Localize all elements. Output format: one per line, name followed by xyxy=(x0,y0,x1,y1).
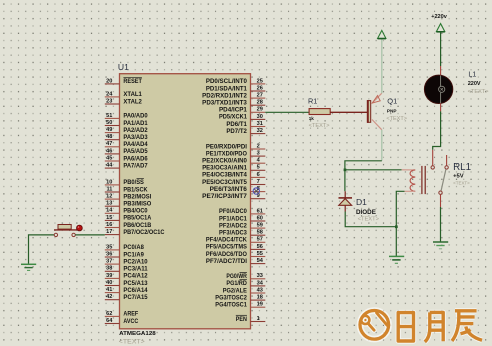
svg-text:PA6/AD6: PA6/AD6 xyxy=(123,156,148,162)
diode D1 label xyxy=(356,197,367,207)
svg-text:13: 13 xyxy=(106,201,112,207)
svg-text:ATMEGA128: ATMEGA128 xyxy=(119,331,156,337)
U1 pin 44 PA7/AD7 (left) xyxy=(105,163,148,170)
U1 pin 49 PA2/AD2 (left) xyxy=(105,127,148,134)
resistor R1 body xyxy=(309,109,330,115)
relay RL1 label xyxy=(453,162,471,173)
U1 pin 10 PB0/SS (left) xyxy=(105,179,144,187)
lamp L1 value 220V xyxy=(468,81,481,87)
U1 pin 35 PC0/A8 (left) xyxy=(105,244,145,251)
svg-text:PD7/T2: PD7/T2 xyxy=(226,129,247,135)
U1 pin 1 PEN (right) xyxy=(236,315,266,323)
U1 pin 30 PD5/XCK1 (right) xyxy=(219,114,265,121)
svg-text:46: 46 xyxy=(106,148,112,154)
watermark character yue xyxy=(425,312,443,342)
U1 pin 25 PD0/SCL/INT0 (right) xyxy=(206,78,265,85)
wire U1 pin 29 PD4/ICP1 to R1 xyxy=(265,111,309,113)
U1 pin 23 XTAL2 (left) xyxy=(105,98,143,105)
svg-text:33: 33 xyxy=(257,273,263,279)
U1 pin 62 AREF (left) xyxy=(105,311,139,318)
resistor R1 label xyxy=(308,97,317,106)
U1 pin 8 PE6/T3/INT6 (right) xyxy=(210,186,266,193)
diode D1 value DIODE xyxy=(356,210,376,216)
svg-text:3: 3 xyxy=(257,151,260,157)
svg-text:38: 38 xyxy=(106,266,112,272)
svg-text:PD1/SDA/INT1: PD1/SDA/INT1 xyxy=(206,86,248,92)
U1 pin 7 PE5/OC3C/INT5 (right) xyxy=(202,179,265,186)
U1 pin 24 XTAL1 (left) xyxy=(105,91,143,98)
U1 pin 43 PG2/ALE (right) xyxy=(223,287,266,294)
svg-text:+5V: +5V xyxy=(453,173,464,179)
IC U1 reference label U1 xyxy=(118,62,129,72)
svg-text:64: 64 xyxy=(106,318,113,324)
svg-text:18: 18 xyxy=(257,295,263,301)
diode D1 cathode bar xyxy=(339,197,353,199)
U1 pin 15 PB5/OC1A (left) xyxy=(105,215,152,222)
svg-text:PD6/T1: PD6/T1 xyxy=(226,122,247,128)
diode D1 anode pin + wire down xyxy=(345,205,395,226)
U1 pin 47 PA4/AD4 (left) xyxy=(105,141,148,148)
svg-text:1: 1 xyxy=(257,316,260,322)
wire junction down to ground xyxy=(395,227,397,256)
svg-text:RL1: RL1 xyxy=(453,162,471,173)
svg-text:58: 58 xyxy=(257,230,263,236)
svg-text:PE2/XCK0/AIN0: PE2/XCK0/AIN0 xyxy=(202,159,247,165)
svg-text:7: 7 xyxy=(257,179,260,185)
svg-text:220V: 220V xyxy=(468,81,481,87)
svg-text:54: 54 xyxy=(257,258,264,264)
svg-text:AVCC: AVCC xyxy=(123,319,138,325)
U1 pin 58 PF3/ADC3 (right) xyxy=(219,230,265,237)
diode D1 text placeholder xyxy=(358,217,379,223)
svg-text:<TEXT>: <TEXT> xyxy=(309,123,330,129)
svg-text:PB7/OC2/OC1C: PB7/OC2/OC1C xyxy=(123,230,165,236)
transistor Q1 text placeholder xyxy=(386,116,407,122)
svg-text:49: 49 xyxy=(106,127,112,133)
U1 pin 37 PC2/A10 (left) xyxy=(105,259,148,266)
U1 pin 57 PF4/ADC4/TCK (right) xyxy=(206,237,265,244)
svg-text:<TEXT>: <TEXT> xyxy=(468,89,489,95)
transistor Q1 value PNP xyxy=(387,109,397,114)
svg-text:PA0/AD0: PA0/AD0 xyxy=(123,114,148,120)
junction diode/coil-return node xyxy=(395,225,398,228)
svg-text:PA1/AD1: PA1/AD1 xyxy=(123,121,148,127)
svg-text:44: 44 xyxy=(106,163,113,169)
diode D1 cathode pin (red) xyxy=(344,191,346,198)
svg-text:PB6/OC1B: PB6/OC1B xyxy=(123,223,152,229)
svg-text:PB1/SCK: PB1/SCK xyxy=(123,187,148,193)
transistor Q1 emitter (diagonal + arrow into base, PNP) xyxy=(372,93,382,103)
push button terminal (right) xyxy=(72,233,75,236)
U1 pin 17 PB7/OC2/OC1C (left) xyxy=(105,229,165,236)
svg-text:48: 48 xyxy=(106,134,112,140)
svg-text:PF1/ADC1: PF1/ADC1 xyxy=(219,216,248,222)
U1 pin 27 PD2/RXD1/INT2 (right) xyxy=(202,93,265,100)
wire collector elbow to node A xyxy=(345,161,382,192)
relay RL1 value +5V xyxy=(453,173,464,179)
U1 pin 56 PF5/ADC5/TMS (right) xyxy=(206,244,265,251)
svg-text:PD2/RXD1/INT2: PD2/RXD1/INT2 xyxy=(202,93,247,99)
watermark character ri xyxy=(398,313,413,341)
svg-text:PA4/AD4: PA4/AD4 xyxy=(123,142,148,148)
svg-text:62: 62 xyxy=(106,311,112,317)
svg-text:31: 31 xyxy=(257,121,263,127)
diode D1 triangle xyxy=(339,199,352,206)
U1 pin 38 PC3/A11 (left) xyxy=(105,266,148,273)
relay RL1 pole pin down xyxy=(440,194,442,207)
U1 pin 26 PD1/SDA/INT1 (right) xyxy=(206,85,265,92)
U1 pin 54 PF7/ADC7/TDI (right) xyxy=(206,258,265,265)
U1 pin 45 PA6/AD6 (left) xyxy=(105,155,148,162)
relay RL1 coil arcs xyxy=(410,170,415,191)
U1 pin 2 PE0/RXD0/PDI (right) xyxy=(206,143,265,150)
svg-text:PG2/ALE: PG2/ALE xyxy=(223,288,247,294)
svg-text:24: 24 xyxy=(106,91,113,97)
svg-text:25: 25 xyxy=(257,78,263,84)
wire ground to button (vertical) xyxy=(29,235,55,264)
push button terminal (left) xyxy=(54,233,57,236)
U1 pin 5 PE3/OC3A/AIN1 (right) xyxy=(202,165,265,172)
svg-text:AREF: AREF xyxy=(123,312,138,318)
svg-text:<TEXT>: <TEXT> xyxy=(358,217,379,223)
svg-text:32: 32 xyxy=(257,128,263,134)
U1 pin 28 PD3/TXD1/INT3 (right) xyxy=(202,100,265,107)
svg-text:PC1/A9: PC1/A9 xyxy=(123,252,144,258)
U1 pin 32 PD7/T2 (right) xyxy=(226,128,265,135)
wire R1 to Q1 base (red pin) xyxy=(330,111,367,113)
svg-text:PE3/OC3A/AIN1: PE3/OC3A/AIN1 xyxy=(202,166,247,172)
svg-text:PB4/OC0: PB4/OC0 xyxy=(123,209,148,215)
U1 pin 59 PF2/ADC2 (right) xyxy=(219,223,265,230)
svg-text:26: 26 xyxy=(257,85,263,91)
svg-text:6: 6 xyxy=(257,172,260,178)
svg-text:PD5/XCK1: PD5/XCK1 xyxy=(219,115,248,121)
svg-text:10: 10 xyxy=(106,179,112,185)
ground (diode/coil return) xyxy=(389,256,404,263)
svg-text:14: 14 xyxy=(106,208,113,214)
relay RL1 switch contact left (to lamp) xyxy=(431,150,434,169)
svg-text:L1: L1 xyxy=(468,69,476,78)
svg-text:PG0/WR: PG0/WR xyxy=(226,274,247,280)
svg-text:PC2/A10: PC2/A10 xyxy=(123,259,148,265)
svg-text:PB2/MOSI: PB2/MOSI xyxy=(123,194,151,200)
svg-text:37: 37 xyxy=(106,259,112,265)
svg-text:PB5/OC1A: PB5/OC1A xyxy=(123,216,152,222)
U1 pin 50 PA1/AD1 (left) xyxy=(105,120,148,127)
svg-text:PE4/OC3B/INT4: PE4/OC3B/INT4 xyxy=(202,173,247,179)
svg-text:XTAL2: XTAL2 xyxy=(123,99,142,105)
wire node A to relay coil top xyxy=(345,169,402,171)
U1 pin 18 PG3/TOSC2 (right) xyxy=(215,295,265,302)
svg-text:PF5/ADC5/TMS: PF5/ADC5/TMS xyxy=(206,245,247,251)
svg-text:12: 12 xyxy=(106,194,112,200)
svg-text:1k: 1k xyxy=(309,116,315,121)
U1 pin 9 PE7/ICP3/INT7 (right) xyxy=(202,193,265,200)
svg-text:Q1: Q1 xyxy=(387,97,397,106)
U1 pin 55 PF6/ADC6/TDO (right) xyxy=(206,251,265,258)
U1 pin 14 PB4/OC0 (left) xyxy=(105,208,148,215)
relay RL1 switch contact right (stub) xyxy=(445,155,448,169)
relay RL1 core lines xyxy=(422,166,425,194)
svg-text:PE5/OC3C/INT5: PE5/OC3C/INT5 xyxy=(202,180,247,186)
svg-text:PC0/A8: PC0/A8 xyxy=(123,245,144,251)
svg-text:PF7/ADC7/TDI: PF7/ADC7/TDI xyxy=(206,259,247,265)
U1 pin 60 PF1/ADC1 (right) xyxy=(219,215,265,222)
svg-text:U1: U1 xyxy=(118,62,129,72)
U1 pin 16 PB6/OC1B (left) xyxy=(105,222,152,229)
svg-text:PNP: PNP xyxy=(387,109,397,114)
svg-text:19: 19 xyxy=(257,302,263,308)
U1 pin 31 PD6/T1 (right) xyxy=(226,121,265,128)
svg-text:20: 20 xyxy=(106,78,112,84)
wire button to U1 pin 17 xyxy=(75,234,104,236)
power symbol (emitter supply arrow) xyxy=(378,30,386,38)
U1 pin 36 PC1/A9 (left) xyxy=(105,251,145,258)
U1 pin 4 PE2/XCK0/AIN0 (right) xyxy=(202,158,265,165)
origin marker (blue circle with X) at pin 8 xyxy=(253,188,259,194)
U1 pin 19 PG4/TOSC1 (right) xyxy=(215,302,265,309)
svg-text:<TEXT>: <TEXT> xyxy=(386,116,407,122)
svg-text:PA3/AD3: PA3/AD3 xyxy=(123,135,148,141)
svg-text:40: 40 xyxy=(106,280,112,286)
push button actuator bar xyxy=(54,225,77,230)
svg-text:43: 43 xyxy=(257,287,263,293)
wire Q1 collector down (pale) xyxy=(381,130,383,161)
svg-text:XTAL1: XTAL1 xyxy=(123,92,142,98)
IC U1 text placeholder xyxy=(119,339,145,345)
wire +220v to lamp L1 xyxy=(440,32,442,75)
lamp L1 text placeholder xyxy=(468,89,489,95)
svg-text:47: 47 xyxy=(106,141,112,147)
resistor R1 value 1k xyxy=(309,116,315,121)
svg-text:PE1/TXD0/PDO: PE1/TXD0/PDO xyxy=(206,151,247,157)
svg-text:PC5/A13: PC5/A13 xyxy=(123,281,148,287)
svg-text:PF6/ADC6/TDO: PF6/ADC6/TDO xyxy=(206,252,247,258)
relay RL1 coil bottom lead xyxy=(396,191,415,226)
svg-text:PE6/T3/INT6: PE6/T3/INT6 xyxy=(210,187,248,193)
svg-text:PE0/RXD0/PDI: PE0/RXD0/PDI xyxy=(206,144,247,150)
ground (button) xyxy=(21,264,36,270)
relay RL1 text placeholder xyxy=(453,180,470,186)
U1 pin 40 PC5/A13 (left) xyxy=(105,280,148,287)
svg-text:+220v: +220v xyxy=(431,14,448,20)
svg-text:PB0/SS: PB0/SS xyxy=(123,180,143,186)
wire lamp L1 to relay contact xyxy=(433,103,441,149)
svg-text:PD0/SCL/INT0: PD0/SCL/INT0 xyxy=(206,79,248,85)
push button red actuator dot xyxy=(77,225,83,231)
relay RL1 coil top lead xyxy=(402,169,415,171)
svg-text:PC3/A11: PC3/A11 xyxy=(123,267,148,273)
transistor Q1 base bar xyxy=(367,100,370,123)
svg-text:D1: D1 xyxy=(356,197,367,207)
svg-text:PG4/TOSC1: PG4/TOSC1 xyxy=(215,303,247,309)
svg-text:PG3/TOSC2: PG3/TOSC2 xyxy=(215,295,247,301)
U1 pin 3 PE1/TXD0/PDO (right) xyxy=(206,151,265,158)
wire Q1 emitter to power arrow xyxy=(381,38,383,93)
svg-text:11: 11 xyxy=(106,186,112,192)
svg-text:51: 51 xyxy=(106,113,112,119)
lamp L1 label xyxy=(468,69,476,78)
junction node A xyxy=(344,169,347,172)
svg-text:PC4/A12: PC4/A12 xyxy=(123,274,148,280)
U1 pin 11 PB1/SCK (left) xyxy=(105,186,148,193)
ground (relay switch) xyxy=(433,242,448,249)
U1 pin 42 PC7/A15 (left) xyxy=(105,294,148,301)
svg-text:29: 29 xyxy=(257,107,263,113)
U1 pin 33 PG0/WR (right) xyxy=(226,273,265,281)
watermark character chen xyxy=(452,311,482,341)
IC U1 value label ATMEGA128 xyxy=(119,331,156,337)
svg-text:PE7/ICP3/INT7: PE7/ICP3/INT7 xyxy=(202,194,247,200)
U1 pin 12 PB2/MOSI (left) xyxy=(105,194,152,201)
svg-text:<TEXT>: <TEXT> xyxy=(453,180,470,186)
svg-text:55: 55 xyxy=(257,251,263,257)
svg-text:<TEXT>: <TEXT> xyxy=(119,339,145,345)
svg-text:41: 41 xyxy=(106,287,112,293)
svg-text:50: 50 xyxy=(106,120,112,126)
svg-text:23: 23 xyxy=(106,98,112,104)
svg-text:61: 61 xyxy=(257,208,263,214)
wire relay pole to ground xyxy=(440,207,442,242)
U1 pin 64 AVCC (left) xyxy=(105,318,139,325)
svg-text:60: 60 xyxy=(257,215,263,221)
svg-text:PC6/A14: PC6/A14 xyxy=(123,288,148,294)
svg-text:2: 2 xyxy=(257,143,260,149)
svg-text:PD4/ICP1: PD4/ICP1 xyxy=(219,108,248,114)
svg-text:30: 30 xyxy=(257,114,263,120)
svg-text:45: 45 xyxy=(106,155,112,161)
U1 pin 20 RESET (left) xyxy=(105,78,142,86)
svg-text:PD3/TXD1/INT3: PD3/TXD1/INT3 xyxy=(202,101,247,107)
svg-text:28: 28 xyxy=(257,100,263,106)
svg-text:PF0/ADC0: PF0/ADC0 xyxy=(219,209,248,215)
IC U1 body xyxy=(120,74,251,329)
svg-text:PA5/AD5: PA5/AD5 xyxy=(123,149,148,155)
resistor R1 text placeholder xyxy=(309,123,330,129)
relay RL1 switch pole pivot xyxy=(439,191,442,194)
svg-text:42: 42 xyxy=(106,294,112,300)
svg-text:35: 35 xyxy=(106,244,112,250)
svg-text:PA2/AD2: PA2/AD2 xyxy=(123,128,148,134)
lamp L1 body xyxy=(424,75,452,103)
U1 pin 41 PC6/A14 (left) xyxy=(105,287,148,294)
svg-text:PF3/ADC3: PF3/ADC3 xyxy=(219,231,248,237)
svg-text:PC7/A15: PC7/A15 xyxy=(123,295,148,301)
U1 pin 29 PD4/ICP1 (right) xyxy=(219,107,265,114)
transistor Q1 label xyxy=(387,97,397,106)
svg-text:36: 36 xyxy=(106,251,112,257)
power symbol +220v arrow xyxy=(436,24,444,32)
U1 pin 48 PA3/AD3 (left) xyxy=(105,134,148,141)
svg-text:39: 39 xyxy=(106,273,112,279)
U1 pin 39 PC4/A12 (left) xyxy=(105,273,148,280)
svg-text:5: 5 xyxy=(257,165,260,171)
U1 pin 34 PG1/RD (right) xyxy=(226,280,265,288)
svg-text:59: 59 xyxy=(257,223,263,229)
svg-text:57: 57 xyxy=(257,237,263,243)
power label +220v xyxy=(431,14,448,20)
svg-text:PG1/RD: PG1/RD xyxy=(226,281,247,287)
svg-text:15: 15 xyxy=(106,215,112,221)
U1 pin 46 PA5/AD5 (left) xyxy=(105,148,148,155)
svg-text:PF2/ADC2: PF2/ADC2 xyxy=(219,223,248,229)
svg-text:16: 16 xyxy=(106,222,112,228)
svg-text:27: 27 xyxy=(257,93,263,99)
svg-text:RESET: RESET xyxy=(123,79,142,85)
svg-text:DIODE: DIODE xyxy=(356,210,376,216)
U1 pin 61 PF0/ADC0 (right) xyxy=(219,208,265,215)
U1 pin 13 PB3/MISO (left) xyxy=(105,201,152,208)
svg-text:PA7/AD7: PA7/AD7 xyxy=(123,163,148,169)
svg-text:34: 34 xyxy=(257,280,264,286)
transistor Q1 collector (diagonal) xyxy=(372,120,382,130)
svg-text:PEN: PEN xyxy=(236,317,247,323)
svg-text:R1: R1 xyxy=(308,97,317,106)
svg-text:56: 56 xyxy=(257,244,263,250)
svg-text:17: 17 xyxy=(106,229,112,235)
relay RL1 switch lever xyxy=(441,169,446,191)
U1 pin 6 PE4/OC3B/INT4 (right) xyxy=(202,172,265,179)
svg-text:PF4/ADC4/TCK: PF4/ADC4/TCK xyxy=(206,238,248,244)
U1 pin 51 PA0/AD0 (left) xyxy=(105,113,148,120)
svg-text:PB3/MISO: PB3/MISO xyxy=(123,202,151,208)
watermark logo ring xyxy=(360,311,389,340)
